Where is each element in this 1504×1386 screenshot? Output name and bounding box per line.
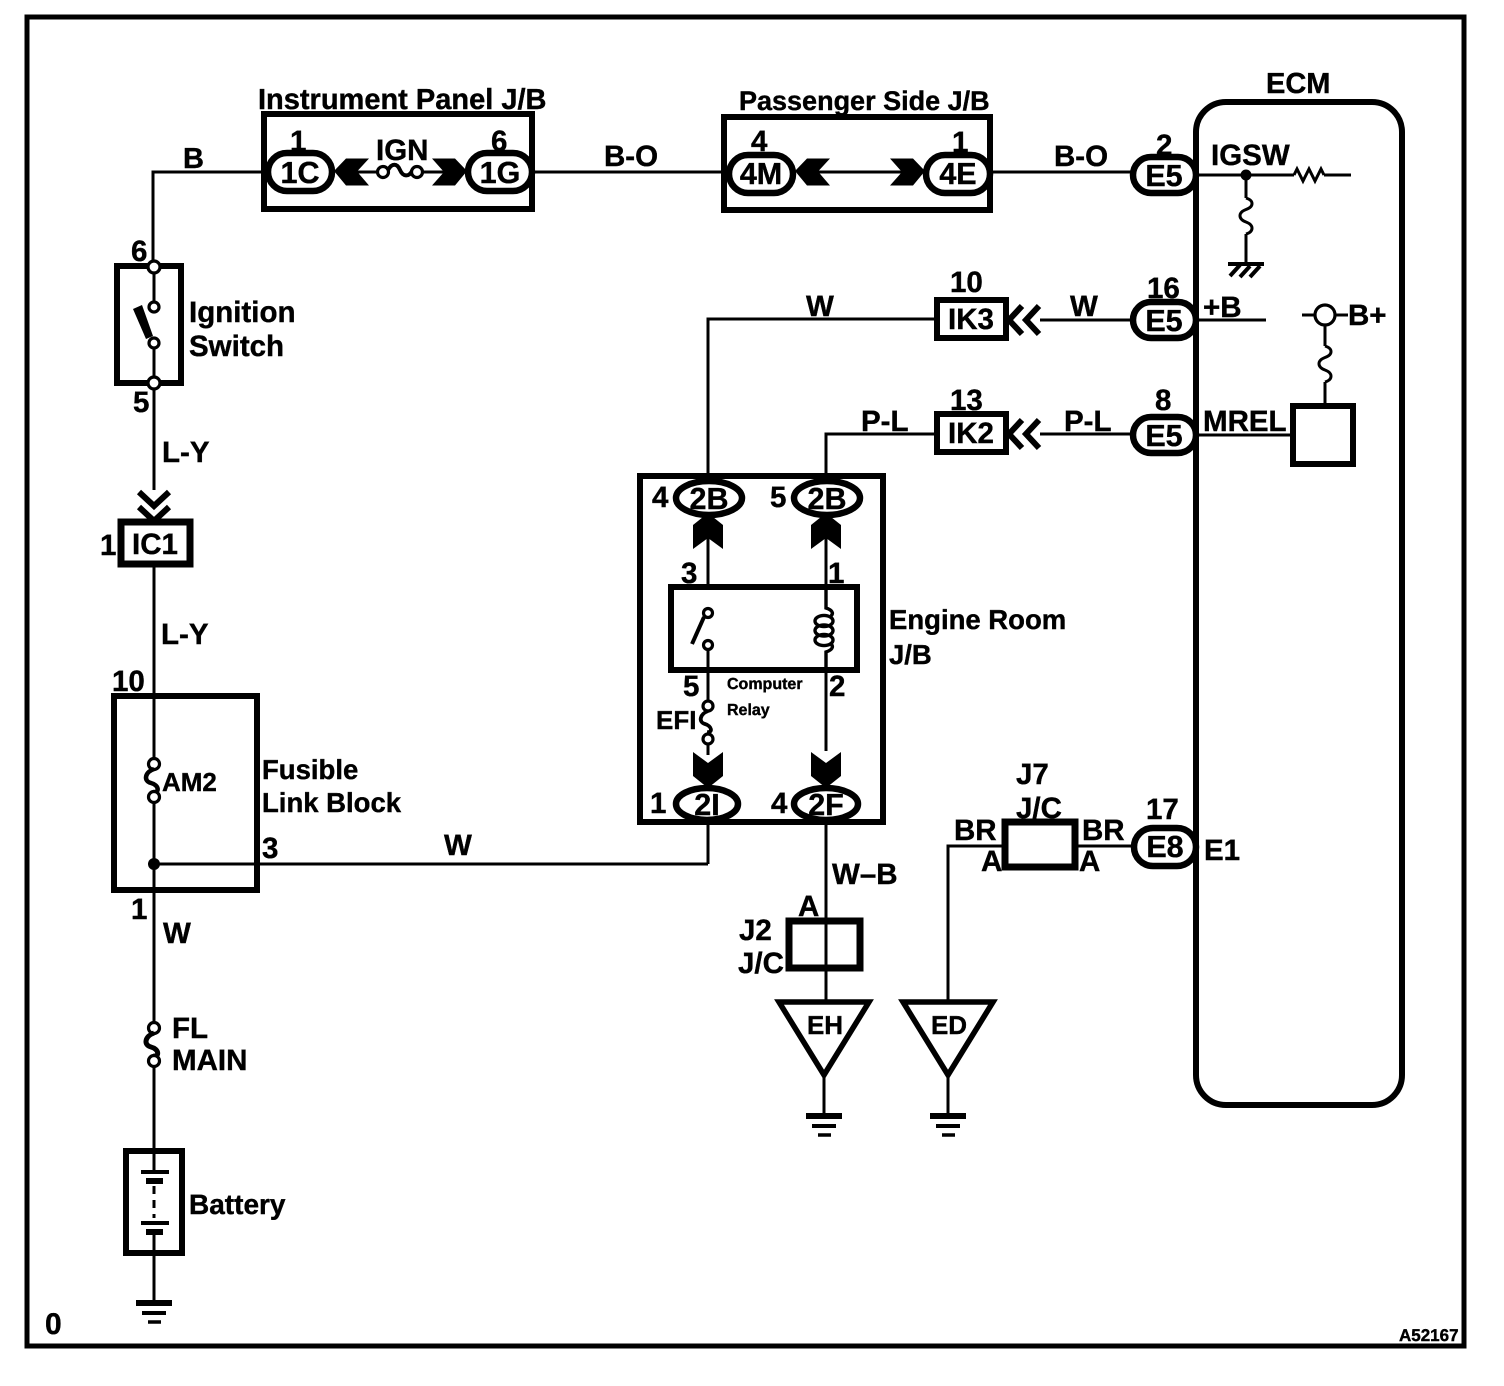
relay switch contact bottom [704, 641, 713, 650]
svg-text:A: A [981, 845, 1002, 878]
Battery box [126, 1151, 182, 1253]
switch contact top [149, 302, 159, 312]
ECM box [1196, 102, 1402, 1105]
wire 2I down to W wire [707, 820, 710, 864]
wire BR to E8 [1075, 845, 1134, 848]
wire [153, 1066, 156, 1151]
ground triangle EH [779, 1002, 869, 1075]
svg-text:Link Block: Link Block [262, 787, 402, 818]
wire inside [153, 348, 156, 377]
svg-text:1: 1 [131, 893, 147, 926]
arrow down (left) [693, 752, 723, 788]
Fusible Link Block box (AM2) [114, 696, 257, 890]
arrow left (4M) [795, 159, 830, 186]
svg-text:1: 1 [650, 787, 666, 820]
wire L-Y [153, 389, 156, 490]
connector IK3 [937, 300, 1006, 338]
svg-text:B+: B+ [1348, 299, 1387, 332]
svg-text:2F: 2F [808, 788, 844, 822]
svg-text:ECM: ECM [1266, 68, 1330, 100]
arrow left (IGN left) [334, 159, 369, 186]
svg-text:W: W [163, 917, 191, 950]
wire [707, 744, 710, 755]
svg-text:4: 4 [771, 787, 788, 820]
svg-text:Engine Room: Engine Room [889, 604, 1066, 635]
ground triangle ED [903, 1002, 993, 1075]
connector 4M [729, 155, 793, 193]
svg-text:MREL: MREL [1203, 405, 1287, 438]
svg-text:AM2: AM2 [162, 767, 217, 797]
svg-text:4M: 4M [740, 157, 782, 191]
svg-text:IGN: IGN [376, 134, 428, 167]
svg-text:B-O: B-O [604, 140, 658, 173]
wire 2F down to EH [825, 820, 828, 1002]
svg-text:1: 1 [100, 529, 116, 562]
svg-text:3: 3 [262, 832, 278, 865]
wire [422, 171, 444, 174]
svg-text:Fusible: Fusible [262, 754, 358, 785]
svg-text:17: 17 [1146, 793, 1179, 826]
connector 4E [926, 155, 990, 193]
svg-text:1C: 1C [281, 156, 320, 190]
svg-text:W: W [806, 290, 834, 323]
wire BR from ED up to J7 [948, 846, 1005, 1002]
svg-text:Computer: Computer [727, 676, 803, 693]
svg-text:E5: E5 [1145, 304, 1182, 338]
svg-text:Battery: Battery [189, 1189, 286, 1220]
connector 2I [676, 788, 738, 820]
svg-text:4E: 4E [939, 157, 976, 191]
arrow chevrons down [139, 492, 169, 521]
connector 2F [794, 788, 858, 820]
switch contact bottom [149, 338, 159, 348]
connector 1G [468, 153, 532, 191]
svg-text:W: W [1070, 290, 1098, 323]
svg-text:IK3: IK3 [948, 303, 994, 336]
svg-text:BR: BR [1082, 814, 1125, 847]
wire [947, 1075, 950, 1113]
Engine Room J/B box [640, 476, 883, 822]
wire [357, 171, 378, 174]
connector 2B (right) [794, 481, 860, 515]
wire [1324, 174, 1351, 177]
svg-text:BR: BR [954, 814, 997, 847]
svg-text:5: 5 [133, 386, 149, 419]
relay coil [815, 587, 833, 670]
connector E5 pin2 [1133, 157, 1196, 193]
svg-text:IGSW: IGSW [1211, 139, 1290, 172]
svg-text:5: 5 [770, 481, 786, 514]
arrow up (right) [811, 513, 841, 549]
svg-text:EH: EH [807, 1010, 843, 1040]
svg-text:P-L: P-L [861, 405, 909, 438]
svg-text:E1: E1 [1204, 834, 1240, 867]
wire [818, 171, 902, 174]
arrow right (4E) [890, 159, 925, 186]
wire W horizontal to 2I [154, 863, 708, 866]
resistor (zigzag) [1294, 169, 1324, 181]
arrows << [1009, 420, 1039, 448]
fusible link FL MAIN [149, 1023, 160, 1034]
svg-text:W–B: W–B [832, 858, 898, 891]
computer relay box [671, 587, 857, 670]
svg-text:ED: ED [931, 1010, 967, 1040]
svg-text:4: 4 [652, 481, 669, 514]
junction dot [1241, 170, 1252, 181]
svg-text:Switch: Switch [189, 330, 284, 363]
svg-text:B-O: B-O [1054, 140, 1108, 173]
svg-text:J2: J2 [739, 914, 772, 947]
wire [823, 1075, 826, 1113]
svg-text:A: A [1079, 845, 1100, 878]
svg-text:J/B: J/B [889, 639, 932, 670]
connector IK2 [937, 414, 1006, 452]
arrow right (IGN right) [432, 159, 467, 186]
Instrument Panel J/B box [264, 114, 532, 209]
B+ terminal [1302, 314, 1348, 317]
svg-text:Passenger Side J/B: Passenger Side J/B [739, 86, 990, 116]
wire W to E5 [1040, 319, 1133, 322]
svg-text:Relay: Relay [727, 702, 770, 719]
connector 2B (left) [676, 481, 742, 515]
svg-text:1G: 1G [480, 156, 521, 190]
svg-text:2B: 2B [808, 482, 847, 516]
terminal circle bottom [148, 377, 160, 389]
svg-text:FL: FL [172, 1012, 208, 1045]
junction connector J7 J/C box [1005, 822, 1075, 867]
wire inside [153, 273, 156, 302]
svg-text:5: 5 [683, 670, 699, 703]
svg-text:L-Y: L-Y [162, 436, 210, 469]
wire [707, 649, 710, 701]
connector E5 pin8 [1133, 417, 1196, 453]
arrow up (left) [693, 513, 723, 549]
svg-text:E5: E5 [1145, 159, 1182, 193]
svg-text:MAIN: MAIN [172, 1044, 247, 1077]
chassis ground [1228, 264, 1264, 277]
ground (ED) [930, 1116, 966, 1135]
wire P-L to E5 [1040, 433, 1133, 436]
svg-text:B: B [183, 143, 204, 175]
svg-text:L-Y: L-Y [161, 618, 209, 651]
svg-text:J/C: J/C [738, 947, 784, 980]
relay box (MREL coil) [1293, 406, 1353, 464]
resistor (vertical wavy) [1319, 346, 1331, 382]
svg-text:Ignition: Ignition [189, 296, 296, 329]
junction dot [148, 858, 160, 870]
terminal circle top [148, 261, 160, 273]
wire down from B+ [1324, 325, 1327, 346]
connector IC1 [121, 522, 190, 564]
fuse EFI [703, 701, 713, 711]
wire B-O between J/Bs [532, 171, 729, 174]
svg-text:8: 8 [1155, 384, 1171, 417]
fusible link AM2 [149, 759, 160, 770]
svg-text:E8: E8 [1146, 830, 1183, 864]
wire L-Y [153, 564, 156, 759]
wire B horizontal+vertical from ignition switch to 1C [153, 172, 268, 266]
wire [153, 802, 156, 1023]
Ignition Switch box [117, 266, 181, 383]
wire B-O to ECM [990, 171, 1133, 174]
svg-text:A52167: A52167 [1399, 1326, 1459, 1345]
relay switch lever [692, 617, 704, 644]
Passenger Side J/B box [724, 117, 990, 210]
wire [825, 538, 828, 587]
svg-text:E5: E5 [1145, 419, 1182, 453]
wire IGSW [1196, 174, 1294, 177]
ground (EH) [806, 1116, 842, 1135]
svg-text:IC1: IC1 [132, 528, 178, 561]
connector 1C [268, 153, 332, 191]
wire to ground [153, 1253, 156, 1302]
wire [1245, 234, 1248, 264]
connector E5 pin16 [1133, 302, 1196, 338]
ground (battery) [136, 1303, 172, 1322]
svg-text:EFI: EFI [656, 705, 696, 735]
arrows << [1009, 306, 1039, 334]
switch lever [133, 305, 153, 339]
wire +B stub [1196, 319, 1266, 322]
svg-text:2I: 2I [694, 788, 719, 822]
svg-text:2: 2 [829, 670, 845, 703]
battery internals [153, 1151, 156, 1171]
wire P-L from engine room J/B up to IK2 [826, 434, 936, 481]
wire down [1245, 175, 1248, 198]
svg-text:2B: 2B [690, 482, 729, 516]
wire W from engine room J/B up to IK3 [708, 319, 936, 481]
resistor (vertical wavy) [1240, 198, 1252, 234]
arrow down (right) [811, 752, 841, 788]
wire [707, 538, 710, 587]
svg-text:W: W [444, 829, 472, 862]
svg-text:J7: J7 [1016, 758, 1049, 791]
svg-text:P-L: P-L [1064, 405, 1112, 438]
relay switch contact top [704, 609, 713, 618]
svg-text:IK2: IK2 [948, 417, 994, 450]
svg-text:10: 10 [950, 266, 983, 299]
connector E8 [1134, 828, 1196, 866]
wire MREL [1196, 434, 1293, 437]
svg-text:0: 0 [45, 1308, 62, 1341]
wire [1324, 382, 1327, 406]
